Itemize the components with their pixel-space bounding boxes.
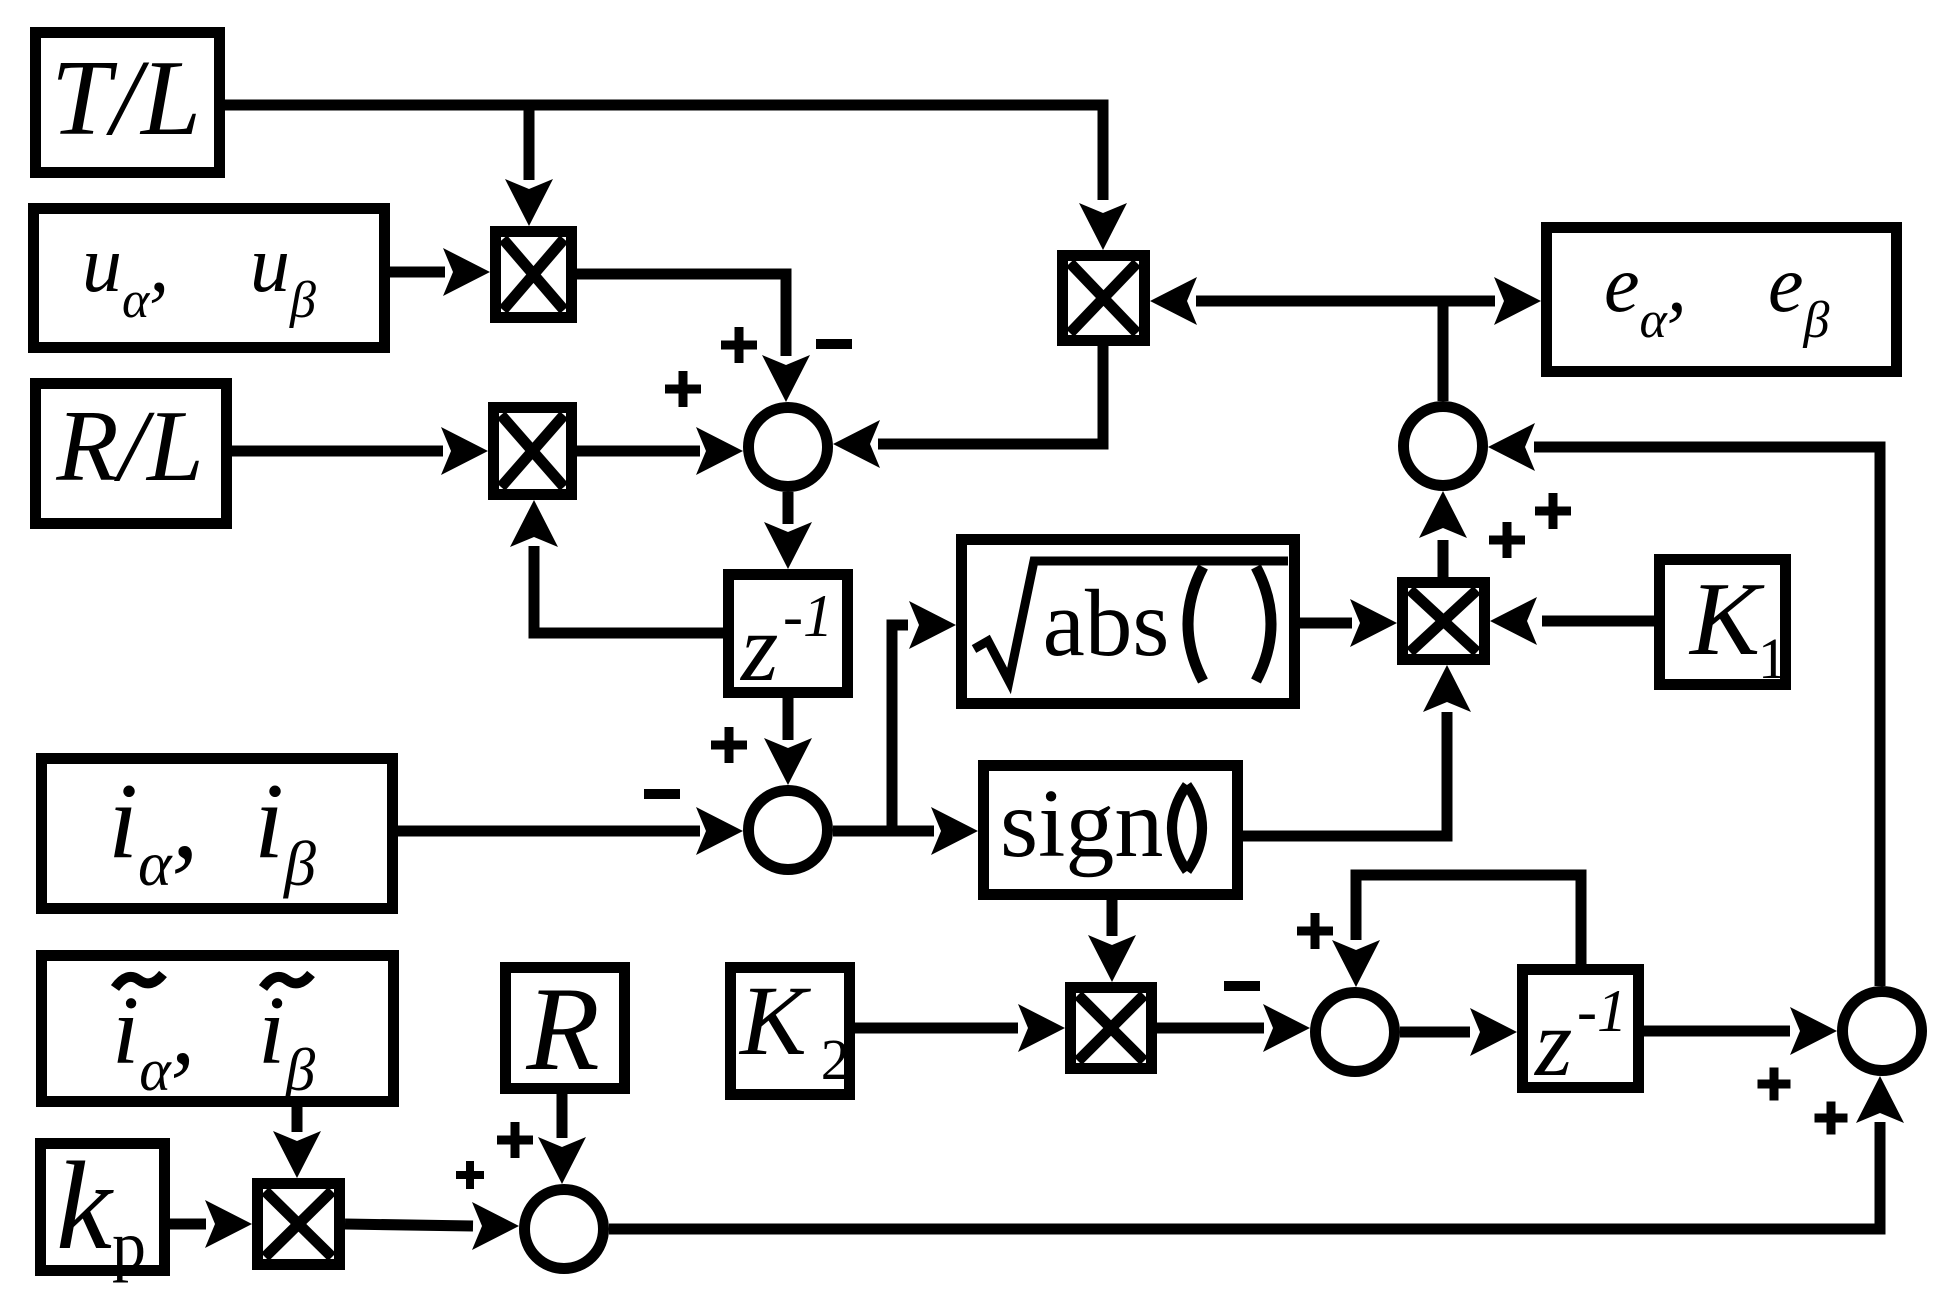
multiplier M2 (R/L x z-1) — [494, 408, 572, 495]
wire branch from C3 output up into sqrt-abs block — [892, 601, 956, 831]
svg-text:-1: -1 — [1577, 978, 1627, 1044]
radical sign of sqrt-abs — [974, 561, 1288, 681]
svg-text:z: z — [739, 594, 778, 701]
svg-text:z: z — [1533, 989, 1572, 1096]
block Z1 z^-1 — [729, 575, 848, 693]
svg-text:T/L: T/L — [51, 39, 201, 158]
wire C1 output to z-1 block Z1 — [764, 492, 812, 569]
wire T/L output to multipliers M1 and M3 — [222, 105, 1127, 250]
plus sign at C4 top input — [497, 1122, 533, 1158]
summing node C4 — [525, 1190, 604, 1269]
plus sign at C3 top input — [711, 727, 747, 763]
tilde accent over i-tilde beta — [263, 974, 311, 988]
wire C2 to e-line junction — [1438, 301, 1449, 401]
block R gain — [506, 968, 625, 1089]
svg-text:abs: abs — [1043, 570, 1170, 676]
wire R/L to M2 — [230, 427, 488, 475]
minus sign at M5 output — [1224, 981, 1260, 991]
minus sign at C1 top-right — [816, 339, 852, 349]
multiplier M4 (K1 x sqrt-abs x sign) — [1403, 583, 1485, 660]
svg-text:R/L: R/L — [55, 390, 203, 503]
wire Z1 feedback to M2 bottom — [510, 500, 723, 633]
block i_alpha i_beta — [42, 759, 393, 909]
block T/L — [36, 33, 220, 173]
plus sign at C5 top input — [1297, 913, 1333, 949]
wire Z1 output to summing node C3 — [764, 698, 812, 785]
wire K2 to M5 — [853, 1004, 1065, 1052]
wire i to C3 — [396, 807, 743, 855]
summing node C2 — [1404, 407, 1483, 486]
parentheses of sqrt-abs — [1188, 567, 1203, 681]
wire C5 output to Z2 — [1400, 1008, 1517, 1056]
multiplier M3 (T/L x e) — [1063, 256, 1145, 341]
block K1 — [1660, 560, 1786, 685]
plus sign at C1 left input — [665, 371, 701, 407]
wire C6 output up to C2 right input — [1488, 423, 1880, 986]
multiplier M5 (K2 x sign) — [1071, 988, 1152, 1069]
wire K1 to M4 — [1490, 597, 1654, 645]
wire R output down to C4 — [538, 1092, 586, 1184]
block i-tilde alpha beta — [42, 956, 394, 1102]
block R/L — [36, 384, 227, 524]
wire i-tilde output down to M6 — [273, 1105, 321, 1178]
svg-text:sign: sign — [1000, 770, 1163, 878]
block Z2 z^-1 — [1523, 970, 1639, 1088]
plus sign at C2 right input lower — [1489, 522, 1525, 558]
summing node C1 — [749, 408, 828, 487]
minus sign at C3 left input — [644, 789, 680, 799]
multiplier M6 (kp x i-tilde) — [258, 1184, 340, 1265]
block K2 — [731, 968, 850, 1095]
wire abs output to M4 — [1300, 599, 1397, 647]
wire M4 output up to C2 — [1419, 491, 1467, 577]
wire kp to M6 — [168, 1200, 252, 1248]
plus sign at C2 bottom input upper — [1535, 493, 1571, 529]
parentheses of sign block — [1172, 785, 1187, 871]
wire u to M1 — [388, 248, 490, 296]
multiplier M1 (T/L x u) — [496, 232, 572, 318]
wire Z2 feedback to C5 top — [1332, 875, 1581, 987]
summing node C3 — [749, 791, 828, 870]
summing node C5 — [1316, 993, 1395, 1072]
block kp — [41, 1144, 165, 1271]
wire C4 output long line to C6 bottom input — [609, 1076, 1904, 1229]
plus sign at C6 bottom input — [1815, 1102, 1848, 1135]
svg-text:-1: -1 — [783, 583, 833, 649]
wire sign output right and up into M4 bottom — [1243, 665, 1471, 836]
wire M5 output to C5 — [1157, 1004, 1310, 1052]
tilde accent over i-tilde alpha — [115, 974, 163, 988]
wire junction line between M3 and e box — [1150, 277, 1541, 325]
wire M1 output to summing node C1 — [577, 274, 810, 402]
plus sign at C1 top input — [721, 327, 757, 363]
wire Z2 output to C6 — [1644, 1007, 1837, 1055]
svg-text:R: R — [525, 962, 599, 1095]
summing node C6 — [1843, 992, 1922, 1071]
block e_alpha e_beta — [1547, 228, 1897, 372]
block u_alpha u_beta — [34, 209, 385, 348]
block sqrt-abs — [962, 540, 1295, 704]
wire M6 output to C4 — [345, 1202, 519, 1250]
wire M3 output to C1 right input — [833, 346, 1103, 468]
wire M2 output to C1 — [577, 427, 743, 475]
wire sign output down to M5 — [1088, 898, 1136, 982]
plus sign at C6 left input — [1758, 1068, 1791, 1101]
wire C3 output to sign() — [833, 807, 978, 855]
plus sign at C4 left input — [456, 1161, 484, 1189]
block sign — [984, 766, 1238, 895]
wire branch from T/L line down into M1 — [505, 105, 553, 226]
